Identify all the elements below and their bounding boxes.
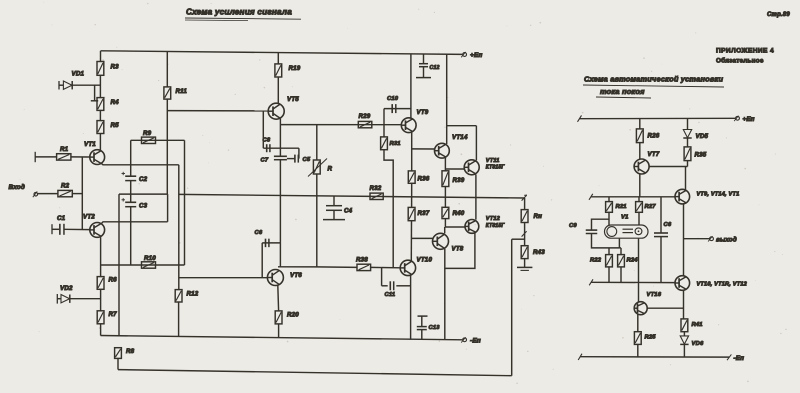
resistor R40 <box>442 207 449 218</box>
wire VT2 collector down <box>100 237 102 276</box>
wire R22 top <box>608 248 610 255</box>
wire VT9 collector <box>410 54 412 118</box>
svg-text:R7: R7 <box>109 311 118 318</box>
transistor VT10 <box>400 260 415 275</box>
svg-text:C6: C6 <box>664 222 672 228</box>
resistor R39 <box>442 171 449 187</box>
label R38 <box>356 257 368 264</box>
wire C8 corner down <box>298 148 300 158</box>
wire VT5 base drop <box>262 111 264 148</box>
capacitor C1 <box>60 224 64 235</box>
label R6 <box>109 277 118 284</box>
capacitor C8 <box>267 144 270 152</box>
svg-text:R11: R11 <box>176 88 188 95</box>
variable resistor R <box>308 159 327 177</box>
svg-text:R9: R9 <box>143 130 152 137</box>
svg-text:V1: V1 <box>621 215 629 221</box>
label R43 <box>533 249 545 256</box>
capacitor C7 <box>274 156 287 159</box>
wire R7 to -Ep rail <box>100 324 102 336</box>
svg-text:R2: R2 <box>61 183 70 190</box>
wire bottom feedback rail <box>118 370 512 376</box>
label C1 <box>57 215 66 222</box>
label C4 <box>344 208 353 215</box>
label C6 <box>255 230 263 236</box>
svg-text:R40: R40 <box>453 210 465 217</box>
wire C6 right bottom <box>660 237 662 283</box>
resistor R6 <box>97 277 104 290</box>
transistor VT12 <box>465 220 479 234</box>
svg-text:C5: C5 <box>303 157 311 163</box>
wire C6 right top <box>660 197 662 233</box>
transistor VT13 <box>675 189 690 204</box>
wire VT6 emitter down <box>277 285 280 311</box>
wire R21 to lamp <box>608 212 610 225</box>
wire VT7 collector line <box>649 166 687 168</box>
wire right bus lower <box>591 281 675 283</box>
terminal right -Ep <box>727 354 744 362</box>
svg-text:R24: R24 <box>627 258 639 264</box>
svg-text:VT16: VT16 <box>647 292 662 298</box>
wire +Ep top rail <box>101 51 463 55</box>
wire VT6 base line <box>179 277 268 279</box>
wire pot top stem <box>316 125 318 160</box>
resistor R12 <box>175 290 182 302</box>
wire C10 line <box>384 108 411 110</box>
svg-text:+Еп: +Еп <box>743 116 755 123</box>
label C3 <box>139 203 148 210</box>
resistor R21 <box>606 202 613 213</box>
resistor R7 <box>97 311 104 324</box>
wire bus to R21 <box>608 197 610 202</box>
label C13 <box>429 325 441 331</box>
svg-text:выход: выход <box>716 237 737 244</box>
label VT12 type <box>486 223 506 229</box>
wire R40 to VT12 base <box>445 219 465 227</box>
wire R40 top <box>444 198 446 208</box>
label R29 <box>359 113 371 120</box>
wire C9 top loop <box>592 219 610 230</box>
label выход <box>716 237 737 244</box>
wire C9 bottom loop <box>592 234 620 248</box>
stub near VD1 <box>91 85 98 101</box>
ground <box>517 267 532 270</box>
tick bus lower left <box>589 279 593 285</box>
wire to vyhod <box>684 238 710 240</box>
wire loop to R24 <box>619 248 621 255</box>
resistor R38 <box>357 264 371 270</box>
svg-text:R39: R39 <box>453 177 465 184</box>
wire loop horizontal y194 <box>119 193 168 195</box>
svg-text:-Еп: -Еп <box>470 338 481 345</box>
label R20 <box>287 312 299 319</box>
wire R31 top lead <box>383 125 385 137</box>
svg-text:C6: C6 <box>255 230 263 236</box>
label R19 <box>289 65 301 72</box>
node tap arrow <box>522 231 527 236</box>
wire C2 to C3 <box>130 181 132 203</box>
wire C6 left leg <box>261 243 263 278</box>
resistor R22 <box>606 255 613 267</box>
resistor R31 <box>381 137 388 150</box>
terminal tick R1 left <box>34 152 36 162</box>
wire VT9 emitter <box>411 132 413 171</box>
resistor R8 <box>115 348 122 359</box>
diode VD2 <box>61 295 70 303</box>
transistor VT7 <box>634 159 649 174</box>
label R9 <box>143 130 152 137</box>
wire R41 to VD6 <box>683 332 685 336</box>
label Вход <box>9 183 26 191</box>
wire lamp bottom to loop <box>618 239 620 248</box>
wire tick to VD1 <box>59 84 63 86</box>
wire R19 to VT5 <box>277 77 279 104</box>
label R32 <box>370 185 382 192</box>
resistor R36 <box>408 171 415 183</box>
wire R12 to -Ep rail <box>178 302 180 337</box>
capacitor C11 <box>390 281 393 290</box>
svg-text:+Еп: +Еп <box>470 52 483 59</box>
wire top rail to R11 <box>166 52 168 87</box>
resistor R3 <box>97 62 104 76</box>
resistor R20 <box>275 311 282 324</box>
wire input to R2 <box>38 193 58 195</box>
wire C10 left drop <box>383 109 385 125</box>
transistor VT14 <box>435 143 450 158</box>
svg-text:C1: C1 <box>57 215 66 222</box>
wire VT11 base line <box>445 168 464 170</box>
svg-text:VT11: VT11 <box>486 158 500 164</box>
terminal -Ep <box>461 337 481 344</box>
transistor VT1 <box>90 150 105 165</box>
wire VT5 base line <box>167 110 268 112</box>
terminal right +Ep <box>734 116 755 123</box>
label R1 <box>60 146 69 153</box>
capacitor C2 <box>125 176 136 180</box>
label R11 <box>176 88 188 95</box>
svg-text:C12: C12 <box>430 65 440 71</box>
label C12 <box>430 65 440 71</box>
svg-text:R37: R37 <box>418 210 430 217</box>
label R2 <box>61 183 70 190</box>
svg-text:R41: R41 <box>692 322 703 328</box>
label R8 <box>126 348 135 355</box>
label R7 <box>109 311 118 318</box>
svg-text:C7: C7 <box>261 158 269 164</box>
capacitor C6 right <box>654 233 668 237</box>
wire R27 to lamp <box>638 212 640 224</box>
wire C6 right leg <box>279 243 281 267</box>
svg-text:R29: R29 <box>359 113 371 120</box>
right title line 1 <box>583 75 724 88</box>
resistor R35 <box>684 147 691 161</box>
svg-text:C8: C8 <box>263 138 271 144</box>
wire VT11 emitter to VT12 collector <box>475 198 477 220</box>
label R pot <box>328 166 333 173</box>
svg-text:R31: R31 <box>390 141 401 147</box>
svg-text:R26: R26 <box>648 133 660 140</box>
node bus base divider <box>81 157 83 230</box>
svg-text:Стр.89: Стр.89 <box>767 12 790 18</box>
label VD1 <box>72 71 85 78</box>
wire bus to R27 <box>638 197 640 202</box>
transistor VT5 <box>268 103 284 119</box>
label C9 <box>569 223 577 229</box>
wire vertical A x178.8 <box>178 165 180 290</box>
wire VT16 emitter <box>637 314 639 331</box>
label VT1 <box>84 141 96 148</box>
wire VD6 to rail <box>683 345 685 357</box>
label C8 <box>263 138 271 144</box>
svg-text:Схема автоматической установ: Схема автоматической установки <box>584 75 723 84</box>
label VT5 <box>287 96 299 103</box>
svg-text:R: R <box>328 166 333 173</box>
wire VT13 emitter <box>683 204 685 276</box>
right title line 2 <box>596 87 651 98</box>
appendix header Обязательное <box>716 57 764 65</box>
resistor R43 <box>521 246 528 259</box>
wire Rn to tap <box>524 223 526 246</box>
wire C1 to VT2 base <box>64 228 90 230</box>
wire VT7 emitter <box>639 174 641 197</box>
wire VT10 emitter <box>410 275 412 340</box>
wire lamp right to bus2 <box>638 239 640 283</box>
node output arrow <box>522 195 527 201</box>
terminal input b <box>33 191 38 197</box>
label R12 <box>187 291 199 298</box>
resistor R2 <box>58 190 72 196</box>
svg-text:R43: R43 <box>533 249 545 256</box>
resistor R32 <box>370 193 383 199</box>
svg-text:VT2: VT2 <box>83 214 95 221</box>
svg-text:R38: R38 <box>356 257 368 264</box>
svg-text:R32: R32 <box>370 185 382 192</box>
label R21 <box>616 204 627 210</box>
svg-text:C13: C13 <box>429 325 441 331</box>
wire loop vertical x167 <box>167 194 169 222</box>
capacitor C10 <box>392 104 396 113</box>
wire VT14 collector <box>446 54 448 144</box>
wire R5 to VT1 collector <box>99 134 101 151</box>
capacitor C9 <box>586 230 598 233</box>
svg-text:R4: R4 <box>111 99 120 106</box>
resistor R41 <box>681 319 688 332</box>
wire output to Rn <box>524 198 526 210</box>
wire R24 bottom <box>620 267 622 282</box>
label R41 <box>692 322 703 328</box>
wire R2 to bus <box>72 193 82 195</box>
svg-text:Rн: Rн <box>534 213 543 220</box>
resistor R9 <box>142 137 156 143</box>
svg-text:VT10, VT1R, VT12: VT10, VT1R, VT12 <box>697 282 748 288</box>
svg-text:VT6: VT6 <box>290 272 302 279</box>
label R37 <box>418 210 430 217</box>
resistor R29 <box>358 121 372 127</box>
svg-text:C9: C9 <box>569 223 577 229</box>
polarity mark C2 <box>122 172 126 175</box>
wire VT14 emitter <box>444 158 446 171</box>
label VT6 <box>290 272 302 279</box>
wire top rail to R19 <box>277 53 279 64</box>
polarity mark C3 <box>122 198 126 201</box>
wire R36 to rail <box>411 183 413 207</box>
svg-text:VT12: VT12 <box>486 216 501 222</box>
label R3 <box>111 64 120 71</box>
label R39 <box>453 177 465 184</box>
transistor VT2 <box>90 223 105 238</box>
wire C3 to R10 line <box>130 207 132 265</box>
wire VT5 emitter to VT9 base <box>281 124 401 126</box>
diode VD5 <box>683 130 691 139</box>
terminal tick VD2 left <box>56 294 58 304</box>
svg-text:R10: R10 <box>144 255 156 262</box>
svg-text:R22: R22 <box>590 258 602 264</box>
svg-text:R27: R27 <box>645 204 657 210</box>
svg-text:КТ815Г: КТ815Г <box>486 165 506 171</box>
label VD2 <box>60 285 73 292</box>
wire VT10g emitter <box>683 290 685 319</box>
svg-text:R36: R36 <box>418 176 430 183</box>
wire R9 line <box>131 139 185 141</box>
label Rн <box>534 213 543 220</box>
resistor R10 <box>142 262 156 268</box>
wire C6 line <box>262 242 280 244</box>
resistor R25 <box>634 332 641 345</box>
wire R25 to rail <box>637 344 639 357</box>
label R40 <box>453 210 465 217</box>
label VT16 <box>647 292 662 298</box>
wire VD2 to R column <box>70 298 101 300</box>
label VT11 desig <box>486 158 500 164</box>
label VD5 <box>696 133 709 140</box>
label R27 <box>645 204 657 210</box>
wire output rail <box>179 194 525 198</box>
wire R6 to R7 <box>100 289 102 311</box>
resistor R11 <box>164 87 171 99</box>
svg-text:VT5: VT5 <box>287 96 299 103</box>
wire collector branch to VT11 <box>447 125 477 127</box>
page header Стр.89 <box>767 12 790 18</box>
svg-text:C2: C2 <box>139 176 148 183</box>
svg-text:VD6: VD6 <box>692 341 704 347</box>
svg-text:R5: R5 <box>111 122 120 129</box>
wire tick to VD2 <box>57 298 61 300</box>
resistor R4 <box>97 98 104 111</box>
resistor R24 <box>618 255 625 267</box>
svg-text:R25: R25 <box>645 335 657 341</box>
wire VT16 base up <box>638 282 640 302</box>
wire R20 to -Ep rail <box>278 324 280 338</box>
svg-text:ПРИЛОЖЕНИЕ 4: ПРИЛОЖЕНИЕ 4 <box>716 48 774 55</box>
label VT9 <box>417 109 429 116</box>
wire R3 to R4 <box>99 75 101 97</box>
wire VT11 emitter <box>475 174 477 197</box>
diode VD6 <box>680 336 688 345</box>
wire rail to R26 <box>639 119 641 129</box>
wire VT5 emitter down <box>279 119 281 157</box>
wire R39 to rail <box>444 187 446 198</box>
terminal tick C1 left <box>51 224 53 234</box>
tick right -Ep left <box>578 354 582 360</box>
wire VT12 emitter <box>445 233 475 269</box>
tick bus upper left <box>589 194 593 200</box>
wire VT8 base line <box>412 237 433 239</box>
label VT10 group <box>697 282 748 288</box>
terminal +Ep <box>461 52 482 59</box>
wire VD5 to R35 <box>687 139 689 147</box>
svg-text:Обязательное: Обязательное <box>716 57 764 65</box>
label C6 right <box>664 222 672 228</box>
svg-text:Вход: Вход <box>9 183 26 191</box>
wire C11 loop left <box>381 268 383 286</box>
svg-text:-Еп: -Еп <box>734 355 745 362</box>
transistor VT8 <box>433 233 449 249</box>
transistor VT10 group <box>675 276 690 291</box>
svg-text:R21: R21 <box>616 204 627 210</box>
wire C5 line <box>287 158 295 160</box>
wire VT8 collector <box>444 227 446 233</box>
transistor VT16 <box>634 302 647 315</box>
svg-text:тока покоя: тока покоя <box>600 87 645 96</box>
svg-text:Схема усиления сигнала: Схема усиления сигнала <box>186 8 292 17</box>
wire right +Ep rail <box>580 117 736 119</box>
label V1 <box>621 215 629 221</box>
label R5 <box>111 122 120 129</box>
label R26 <box>648 133 660 140</box>
resistor R1 <box>57 154 71 160</box>
wire R38 to VT10 base <box>371 266 401 268</box>
label VT2 <box>83 214 95 221</box>
wire VT6 collector line <box>278 266 317 268</box>
wire R10 line <box>101 264 185 266</box>
label C2 <box>139 176 148 183</box>
label VT10 <box>417 257 433 264</box>
svg-text:R6: R6 <box>109 277 118 284</box>
wire tick to C1 <box>52 228 59 230</box>
wire rail to VD5 <box>687 118 689 129</box>
capacitor C12 <box>416 54 431 78</box>
svg-text:VT1: VT1 <box>84 141 96 148</box>
wire VT11 collector <box>475 126 477 161</box>
svg-text:R35: R35 <box>695 152 707 159</box>
transistor VT11 <box>464 160 479 175</box>
resistor R5 <box>97 121 104 134</box>
svg-text:VT7: VT7 <box>648 151 660 158</box>
label VT8 <box>452 246 464 253</box>
label VT14 <box>452 134 468 141</box>
label VT12 desig <box>486 216 501 222</box>
svg-text:VT14: VT14 <box>452 134 468 141</box>
wire VT16 collector line <box>647 307 683 309</box>
wire right -Ep rail <box>580 356 729 358</box>
wire R43 to ground <box>524 259 526 268</box>
diode VD1 <box>63 81 72 89</box>
svg-text:C4: C4 <box>344 208 353 215</box>
svg-text:C3: C3 <box>139 203 148 210</box>
svg-text:VT9, VT14, VT1: VT9, VT14, VT1 <box>697 192 740 198</box>
label C10 <box>387 96 399 102</box>
capacitor C3 <box>125 202 136 206</box>
label R4 <box>111 99 120 106</box>
resistor R19 <box>275 64 282 77</box>
svg-text:C11: C11 <box>385 292 396 298</box>
svg-text:VD1: VD1 <box>72 71 85 78</box>
wire right bus upper <box>591 196 675 198</box>
appendix header ПРИЛОЖЕНИЕ 4 <box>716 48 774 55</box>
label R31 <box>390 141 401 147</box>
terminal tick VD1 left <box>58 81 60 90</box>
wire R38 line left <box>317 266 357 269</box>
